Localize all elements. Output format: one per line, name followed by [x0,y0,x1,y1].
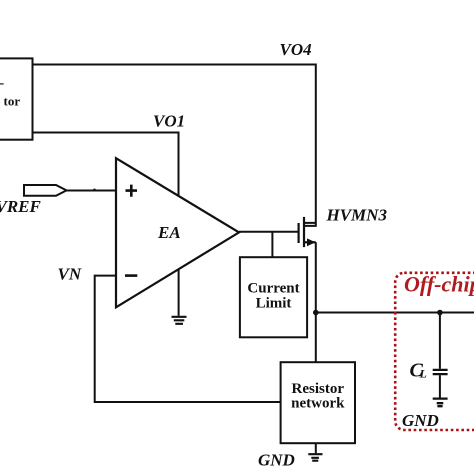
svg-text:L: L [419,367,427,381]
label GND (bottom) [258,451,295,470]
svg-text:VO4: VO4 [280,40,312,59]
ground (resistor network) [308,443,322,461]
svg-text:VREF: VREF [0,197,42,216]
wire output to resistor network [315,313,317,363]
off-chip boundary (dashed red) [395,273,474,430]
svg-text:Current: Current [247,281,299,297]
svg-text:Off-chip: Off-chip [404,272,474,297]
svg-text:VN: VN [58,265,82,284]
label CL [410,360,427,382]
input port VREF [24,185,67,196]
wire VN feedback (resistor network to EA inverting input) [95,276,281,402]
ground (CL) [433,399,448,407]
svg-text:-: - [0,76,5,91]
block Current Limit [240,257,307,337]
label HVMN3 [326,206,388,225]
svg-text:VO1: VO1 [153,112,185,131]
label GND (off-chip) [402,411,439,430]
svg-text:GND: GND [258,451,295,470]
node label VO1 [153,112,185,131]
svg-text:Limit: Limit [256,296,292,312]
node junction at CL [437,310,443,316]
svg-text:EA: EA [157,223,181,242]
svg-text:GND: GND [402,411,439,430]
wire gate branch to current limit [271,232,273,257]
wire VREF to EA noninverting input [67,189,117,192]
node label VO4 [280,40,312,59]
op-amp EA [116,158,239,307]
node label VREF [0,197,42,216]
label Off-chip [404,272,474,297]
svg-text:network: network [291,396,345,412]
wire VO1 net [33,133,179,197]
block regulator (clipped at left edge) [0,58,33,139]
wire EA output to gate [239,231,298,233]
node output junction [313,310,319,316]
transistor HVMN3 (NMOS) [299,217,316,247]
capacitor CL [433,313,448,398]
block Resistor network [281,362,355,443]
ground (EA negative supply) [172,269,187,324]
svg-text:tor: tor [4,94,21,109]
wire VO4 net [33,65,316,227]
wire output to off-chip [316,312,474,314]
node label VN [58,265,82,284]
svg-text:Resistor: Resistor [292,381,345,397]
wire source to output node [315,242,317,312]
svg-text:HVMN3: HVMN3 [326,206,388,225]
